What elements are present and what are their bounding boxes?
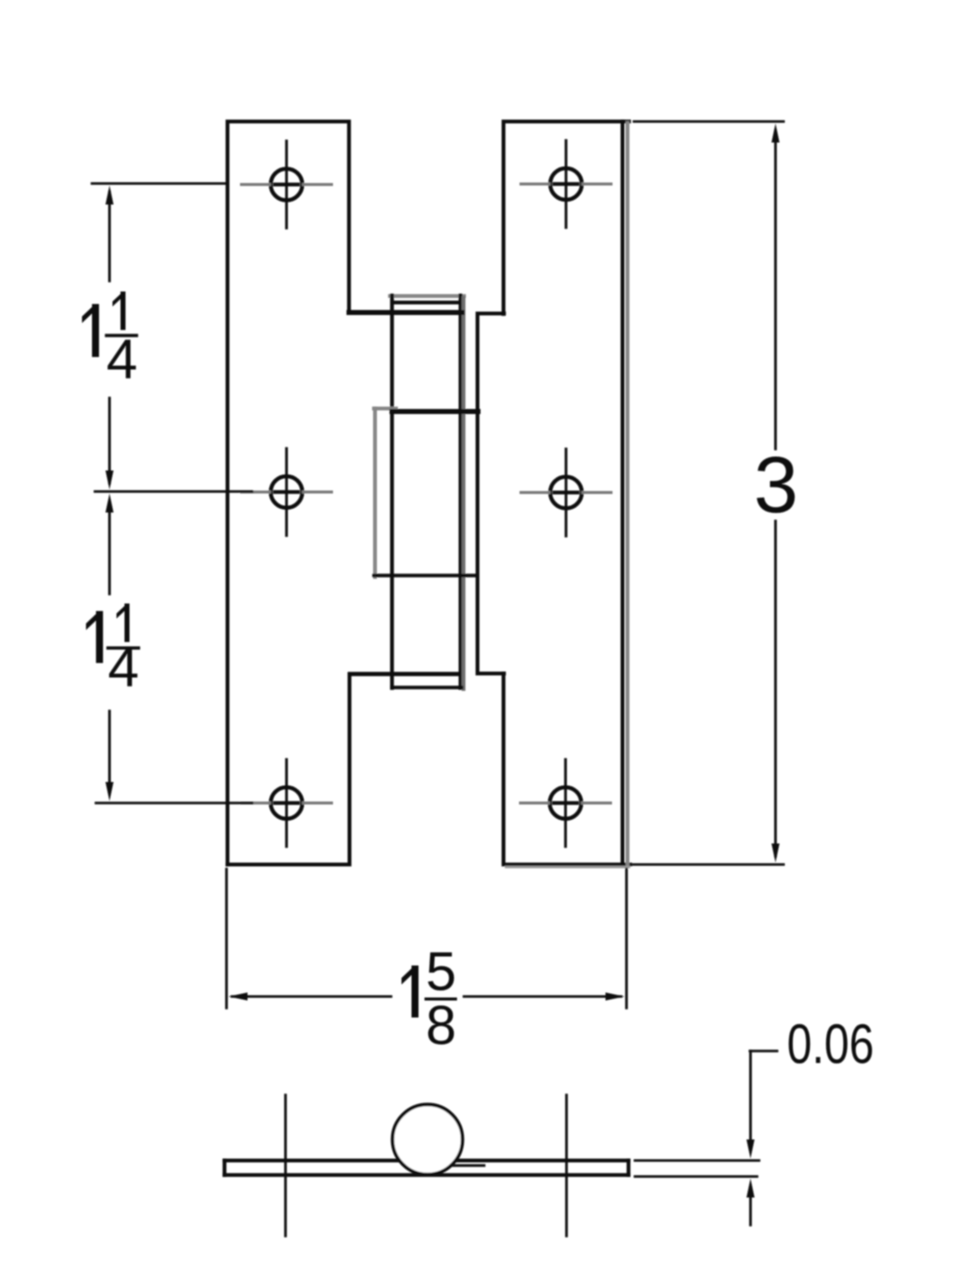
- screw hole middle-right: [521, 449, 611, 536]
- fraction bar 1-5/8: [426, 998, 456, 1001]
- hinge barrel knuckles and pin: [349, 296, 478, 690]
- screw hole bottom-left: [242, 760, 332, 847]
- arrow down lower dimension: [106, 782, 114, 801]
- arrow up upper dimension: [106, 186, 114, 205]
- dimension line 1-1/4 lower: [108, 513, 111, 792]
- svg-text:3: 3: [754, 440, 799, 529]
- svg-text:4: 4: [108, 635, 139, 698]
- arrow right dimension 1-5/8: [606, 993, 625, 1001]
- left leaf plate outline: [228, 122, 350, 865]
- extension line bottom-left hole: [96, 802, 252, 805]
- side view leaf step edge: [452, 1164, 484, 1167]
- dimension line 1-1/4 upper: [108, 192, 111, 483]
- dimension 3 extension top: [634, 120, 784, 123]
- side view knuckle circle: [393, 1105, 463, 1175]
- arrow down upper dimension: [106, 471, 114, 490]
- arrow left dimension 1-5/8: [229, 993, 248, 1001]
- svg-text:0.06: 0.06: [787, 1012, 874, 1075]
- svg-text:8: 8: [426, 994, 457, 1056]
- arrow up dimension 0.06: [747, 1179, 755, 1198]
- svg-text:5: 5: [426, 940, 457, 1002]
- side view thickness extension lines: [635, 1161, 759, 1177]
- dimension 0.06 leader: [750, 1051, 777, 1225]
- arrow up lower dimension: [106, 494, 114, 513]
- screw hole top-right: [521, 141, 611, 228]
- screw hole top-left: [242, 141, 332, 228]
- side view leaf bar: [225, 1161, 629, 1176]
- right leaf edge shadow (gray): [626, 123, 630, 866]
- text 1 5/8: [402, 940, 457, 1056]
- extension line middle-left hole: [95, 490, 252, 493]
- dimension 1-5/8 extension right: [625, 869, 628, 1008]
- screw hole bottom-right: [521, 760, 611, 847]
- right leaf bottom edge shadow (gray): [506, 866, 629, 868]
- svg-text:4: 4: [106, 327, 137, 390]
- extension line top-left hole: [92, 182, 227, 185]
- arrow down dimension 0.06: [747, 1140, 755, 1159]
- right leaf plate outline: [478, 122, 631, 866]
- side view centerline right: [565, 1095, 568, 1236]
- dimension 3 extension bottom: [633, 863, 784, 866]
- text 1 1/4 upper: [82, 292, 138, 391]
- text 1 1/4 lower: [86, 604, 139, 699]
- dimension line 1-5/8: [232, 995, 621, 998]
- arrow up dimension 3: [772, 124, 780, 143]
- arrow down dimension 3: [772, 844, 780, 863]
- fraction bar upper 1-1/4: [107, 334, 137, 337]
- fraction bar lower 1-1/4: [108, 646, 139, 649]
- dimension line 3: [774, 131, 777, 856]
- side view centerline left: [284, 1095, 287, 1236]
- dimension 1-5/8 extension left: [225, 869, 228, 1008]
- screw hole middle-left: [242, 449, 332, 536]
